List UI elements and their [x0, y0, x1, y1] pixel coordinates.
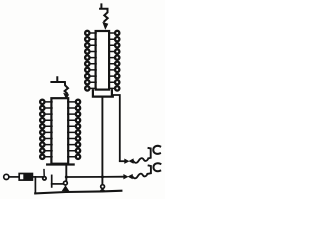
wire: row2 flexible lead (squiggle) — [133, 174, 148, 179]
switch SA1 fixed contact bar — [51, 175, 53, 187]
contact bank S2 right contacts — [115, 31, 119, 91]
contact bank S1 right stubs — [68, 102, 76, 157]
fuse F1 — [19, 174, 32, 181]
contact bank S1 body — [51, 98, 68, 164]
wire: terminal to fuse — [9, 176, 19, 178]
switch SA1 lever and pole — [43, 170, 46, 180]
connector plug P1 (row 1) — [148, 146, 160, 159]
diode VD1 (row 1) — [120, 158, 134, 164]
contact bank S2 right stubs — [109, 33, 115, 88]
terminal X1 — [4, 174, 9, 179]
electromagnet armature Y1 (left) ratchet pawl — [62, 181, 70, 191]
wire: S2 stem down to armature — [101, 98, 103, 185]
diode VD2 (row 2) — [102, 174, 132, 180]
bank S1 base flange — [47, 163, 73, 165]
ground bus wire (bottom) — [35, 191, 121, 194]
contact bank S1 right contacts — [76, 100, 80, 159]
electromagnet armature Y2 (right) ratchet pawl — [99, 185, 107, 192]
contact bank S2 left contacts — [85, 31, 89, 91]
junction at S2 stem — [101, 175, 104, 178]
wiper arrow W1 (top of right bank) — [100, 4, 108, 30]
contact bank S1 left contacts — [40, 100, 44, 159]
wire: row1 flexible lead (squiggle) — [133, 158, 148, 163]
connector plug P2 (row 2) — [148, 163, 161, 174]
contact bank S2 left stubs — [90, 33, 96, 88]
wire: S1 stem down to armature — [65, 165, 67, 181]
wire: row2 feed line from S1 stem to S2 stem — [66, 176, 102, 178]
contact bank S2 body — [96, 31, 110, 90]
bank S2 base bracket — [93, 90, 113, 96]
wire: contact bar to armature Y1 — [52, 183, 64, 185]
wire: bracket to row1 drop — [113, 95, 120, 161]
wire: branch down to ground bus — [34, 177, 36, 194]
junction at S1 stem — [65, 176, 68, 179]
contact bank S1 left stubs — [45, 102, 52, 157]
wiper arrow W2 (top of left bank) — [51, 77, 69, 99]
wire: fuse to switch — [32, 176, 43, 178]
